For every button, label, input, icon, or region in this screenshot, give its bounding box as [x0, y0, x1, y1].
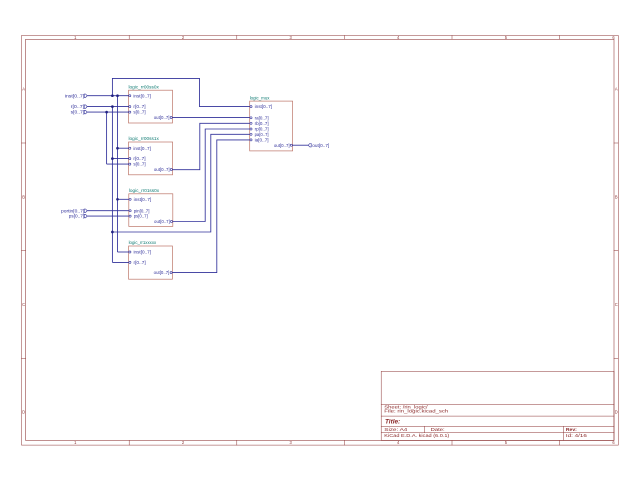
- hierarchical sheet logic_rr00ss0x: [129, 84, 173, 123]
- svg-text:inst[0..7]: inst[0..7]: [65, 93, 84, 98]
- bus logic_rr1xxxxx out to logic_mux ia: [172, 140, 249, 273]
- svg-text:logic_rr1xxxxx: logic_rr1xxxxx: [129, 240, 157, 246]
- sheet pin s[0..7] of logic_rr00ss1x: [129, 162, 146, 167]
- bus r to sheet logic_rr00ss1x: [112, 158, 128, 160]
- svg-text:r[0..7]: r[0..7]: [133, 156, 145, 161]
- svg-text:rb[0..7]: rb[0..7]: [255, 121, 269, 126]
- bus inst to sheet logic_rr01ss0x: [118, 198, 129, 200]
- sheet pin out[0..7] of logic_rr1xxxxx: [154, 270, 173, 275]
- sheet pin inst[0..7] of logic_rr1xxxxx: [129, 250, 151, 255]
- svg-text:inst[0..7]: inst[0..7]: [255, 104, 273, 109]
- junction J7 inst sheet3: [116, 198, 119, 201]
- sheet pin out[0..7] of logic_mux: [274, 143, 293, 148]
- svg-text:s[0..7]: s[0..7]: [133, 110, 145, 115]
- sheet pin rb[0..7] of logic_mux: [250, 121, 269, 126]
- svg-text:inst[0..7]: inst[0..7]: [134, 250, 152, 255]
- sheet pin out[0..7] of logic_rr01ss0x: [154, 219, 173, 224]
- svg-text:Id: 4/16: Id: 4/16: [566, 433, 588, 438]
- hierarchical sheet logic_mux: [250, 95, 293, 151]
- svg-text:s[0..7]: s[0..7]: [71, 110, 85, 115]
- bus s trunk down: [106, 112, 108, 164]
- svg-text:B: B: [22, 194, 25, 199]
- svg-text:pin[0..7]: pin[0..7]: [134, 208, 150, 213]
- svg-text:ia[0..7]: ia[0..7]: [255, 138, 269, 143]
- sheet pin inst[0..7] of logic_rr00ss1x: [129, 146, 151, 151]
- sheet pin inst[0..7] of logic_mux: [250, 104, 272, 109]
- svg-text:portin[0..7]: portin[0..7]: [61, 208, 84, 213]
- sheet pin ps[0..7] of logic_rr01ss0x: [129, 214, 148, 219]
- svg-text:ps[0..7]: ps[0..7]: [69, 214, 84, 219]
- svg-text:KiCad E.D.A. kicad (6.0.1): KiCad E.D.A. kicad (6.0.1): [384, 433, 450, 438]
- svg-text:B: B: [615, 194, 618, 199]
- svg-text:logic_rr00ss0x: logic_rr00ss0x: [129, 84, 160, 90]
- svg-text:A: A: [22, 87, 25, 92]
- sheet pin pa[0..7] of logic_mux: [250, 132, 269, 137]
- bus inst to sheet logic_rr1xxxxx: [118, 251, 129, 253]
- svg-text:A: A: [615, 87, 618, 92]
- hierarchical label ps[0..7]: [69, 214, 87, 219]
- svg-text:Date:: Date:: [431, 427, 445, 432]
- svg-text:out[0..7]: out[0..7]: [312, 143, 329, 148]
- hierarchical sheet logic_rr00ss1x: [129, 136, 173, 175]
- svg-text:out[0..7]: out[0..7]: [154, 115, 170, 120]
- sheet pin pin[0..7] of logic_rr01ss0x: [129, 208, 149, 213]
- sheet pin inst[0..7] of logic_rr00ss0x: [129, 93, 151, 98]
- sheet pin ia[0..7] of logic_mux: [250, 138, 269, 143]
- bus logic_rr01ss0x out to logic_mux rp: [173, 129, 250, 222]
- svg-text:File: rin_logic.kicad_sch: File: rin_logic.kicad_sch: [384, 409, 449, 414]
- svg-text:r[0..7]: r[0..7]: [133, 104, 145, 109]
- svg-text:out[0..7]: out[0..7]: [154, 167, 170, 172]
- hierarchical sheet logic_rr1xxxxx: [129, 240, 173, 279]
- junction J8 r tap: [111, 231, 114, 234]
- svg-text:C: C: [22, 302, 25, 307]
- bus logic_mux out to label out[0..7]: [293, 144, 309, 146]
- svg-text:logic_mux: logic_mux: [250, 95, 270, 101]
- sheet pin out[0..7] of logic_rr00ss0x: [154, 115, 173, 120]
- sheet pin r[0..7] of logic_rr00ss0x: [129, 104, 146, 109]
- sheet pin rp[0..7] of logic_mux: [250, 127, 269, 132]
- bus r tap to logic_mux pa: [112, 134, 249, 232]
- svg-text:ra[0..7]: ra[0..7]: [255, 115, 269, 120]
- bus inst trunk down: [117, 96, 119, 252]
- bus r to sheet logic_rr1xxxxx: [112, 261, 128, 263]
- sheet pin r[0..7] of logic_rr00ss1x: [129, 156, 146, 161]
- hierarchical label portin[0..7]: [61, 208, 87, 213]
- svg-text:out[0..7]: out[0..7]: [154, 270, 170, 275]
- bus logic_rr00ss1x out to logic_mux rb: [173, 123, 250, 169]
- svg-text:D: D: [615, 410, 618, 415]
- bus r trunk down: [111, 107, 113, 263]
- bus s to sheet logic_rr00ss1x: [107, 163, 129, 165]
- svg-text:out[0..7]: out[0..7]: [154, 219, 170, 224]
- svg-text:Title:: Title:: [385, 419, 400, 426]
- sheet pin r[0..7] of logic_rr1xxxxx: [129, 260, 146, 265]
- bus r label to sheet logic_rr00ss0x: [87, 106, 128, 108]
- sheet pin s[0..7] of logic_rr00ss0x: [129, 110, 146, 115]
- bus inst riser to logic_mux inst pin (top route): [112, 78, 249, 106]
- bus logic_rr00ss0x out to logic_mux ra: [173, 117, 250, 119]
- junction J2 inst trunk: [116, 94, 119, 97]
- hierarchical label r[0..7]: [71, 104, 88, 109]
- bus inst to sheet logic_rr00ss1x: [118, 147, 129, 149]
- junction J4 s trunk: [105, 111, 108, 114]
- svg-text:D: D: [22, 410, 25, 415]
- hierarchical label s[0..7]: [71, 110, 88, 115]
- bus s label to sheet logic_rr00ss0x: [87, 111, 128, 113]
- svg-text:r[0..7]: r[0..7]: [134, 260, 146, 265]
- hierarchical sheet logic_rr01ss0x: [129, 188, 173, 226]
- svg-text:Rev:: Rev:: [566, 427, 578, 432]
- bus inst label to sheet logic_rr00ss0x: [87, 95, 128, 97]
- hierarchical label out[0..7]: [308, 143, 329, 148]
- junction J1 inst riser: [111, 94, 114, 97]
- svg-text:rp[0..7]: rp[0..7]: [255, 127, 269, 132]
- svg-text:r[0..7]: r[0..7]: [71, 104, 85, 109]
- hierarchical label inst[0..7]: [65, 93, 87, 98]
- svg-text:pa[0..7]: pa[0..7]: [255, 132, 269, 137]
- svg-text:ps[0..7]: ps[0..7]: [134, 214, 148, 219]
- svg-text:out[0..7]: out[0..7]: [274, 143, 290, 148]
- junction J3 r trunk: [111, 105, 114, 108]
- sheet pin inst[0..7] of logic_rr01ss0x: [129, 197, 151, 202]
- svg-text:Size: A4: Size: A4: [384, 427, 408, 432]
- junction J5 inst sheet2: [116, 147, 119, 150]
- svg-text:inst[0..7]: inst[0..7]: [134, 197, 152, 202]
- svg-text:inst[0..7]: inst[0..7]: [133, 146, 151, 151]
- svg-text:C: C: [615, 302, 618, 307]
- bus ps label to sheet logic_rr01ss0x: [87, 215, 129, 217]
- sheet pin out[0..7] of logic_rr00ss1x: [154, 167, 173, 172]
- svg-text:logic_rr00ss1x: logic_rr00ss1x: [129, 136, 160, 142]
- bus portin label to sheet logic_rr01ss0x: [87, 210, 129, 212]
- svg-text:s[0..7]: s[0..7]: [133, 162, 145, 167]
- svg-text:logic_rr01ss0x: logic_rr01ss0x: [129, 188, 160, 194]
- junction J6 r sheet2: [111, 157, 114, 160]
- sheet pin ra[0..7] of logic_mux: [250, 115, 269, 120]
- svg-text:inst[0..7]: inst[0..7]: [133, 93, 151, 98]
